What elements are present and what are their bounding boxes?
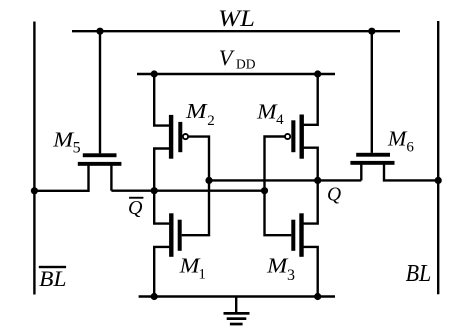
junction: VDD / M4 source branch <box>314 70 321 77</box>
svg-text:BL: BL <box>406 261 432 287</box>
junction: WL / M6 gate <box>368 28 375 35</box>
ground symbol <box>224 312 250 315</box>
svg-text:M: M <box>387 127 408 151</box>
wire: cross-couple gates of M4/M3 to node Q-bar <box>265 137 292 236</box>
wire: Q-bar node horizontal (from M5 drain) <box>111 189 264 191</box>
junction: Q-bar line / M3 M4 gate line <box>261 187 268 194</box>
junction: ground rail / M3 source <box>314 293 321 300</box>
transistor M3 channel bar <box>299 213 303 256</box>
svg-text:M: M <box>266 254 289 278</box>
wire: ground rail <box>139 295 335 297</box>
wire: ground stub <box>235 297 237 313</box>
transistor M6 gate bar <box>356 153 390 157</box>
wire: M5 gate to WL <box>99 31 101 153</box>
wire: M5 source lead to BL-bar <box>34 166 88 191</box>
wire: WL word line rail <box>72 30 400 32</box>
transistor M4 channel bar <box>300 115 304 159</box>
transistor M4 gate bar <box>291 120 295 152</box>
transistor M1 channel bar <box>169 213 173 256</box>
wire: BL bit line (right vertical) <box>437 21 439 294</box>
wire: M2 drain to Q-bar vertical to M1 drain <box>154 149 169 224</box>
svg-text:M: M <box>256 99 278 123</box>
wire: M6 source stub <box>360 165 362 181</box>
svg-text:4: 4 <box>276 112 284 128</box>
svg-text:BL: BL <box>39 266 66 291</box>
wire: VDD rail <box>137 73 335 75</box>
transistor M2 gate bar <box>178 122 182 152</box>
transistor M5 gate bar <box>83 153 117 157</box>
wire: M6 drain lead to BL <box>384 165 438 181</box>
svg-text:2: 2 <box>207 113 215 129</box>
svg-text:WL: WL <box>218 6 255 31</box>
svg-text:M: M <box>185 99 208 123</box>
junction: Q-bar node <box>151 187 158 194</box>
wire: M5 drain stub <box>110 166 112 191</box>
junction: BL / M6 drain <box>435 177 442 184</box>
svg-text:Q: Q <box>327 184 341 205</box>
svg-text:V: V <box>219 45 235 70</box>
wire: VDD to M4 source <box>304 74 318 125</box>
transistor M2 channel bar <box>169 115 173 159</box>
junction: BL-bar / M5 source <box>31 187 38 194</box>
svg-text:DD: DD <box>236 56 256 71</box>
wire: M4 drain to Q vertical to M3 drain <box>304 148 318 224</box>
transistor M5 channel bar <box>78 162 122 166</box>
svg-text:3: 3 <box>287 267 295 284</box>
svg-text:5: 5 <box>73 139 81 156</box>
wire: cross-couple gates of M2/M1 to node Q <box>182 137 209 236</box>
junction: Q line / M1 M2 gate line <box>205 177 212 184</box>
junction: Q node <box>314 177 321 184</box>
wire: M6 gate to WL <box>371 31 373 153</box>
wire: M1 source to ground rail <box>154 247 169 297</box>
svg-text:Q: Q <box>128 197 143 219</box>
svg-text:6: 6 <box>406 140 414 156</box>
wire: BL-bar bit line (left vertical) <box>33 22 35 295</box>
wire: Q node horizontal (to M6 source) <box>209 179 361 181</box>
junction: ground rail / M1 source <box>151 293 158 300</box>
junction: WL / M5 gate <box>96 28 103 35</box>
transistor M6 channel bar <box>350 161 394 165</box>
transistor M4 PMOS bubble <box>285 134 290 139</box>
wire: VDD to M2 source <box>154 74 169 126</box>
wire: M3 source to ground rail <box>304 247 318 297</box>
junction: VDD / M2 source branch <box>151 70 158 77</box>
transistor M1 gate bar <box>178 220 182 251</box>
transistor M2 PMOS bubble <box>183 134 188 139</box>
svg-text:1: 1 <box>198 266 206 282</box>
transistor M3 gate bar <box>291 220 295 251</box>
svg-text:M: M <box>52 127 75 151</box>
